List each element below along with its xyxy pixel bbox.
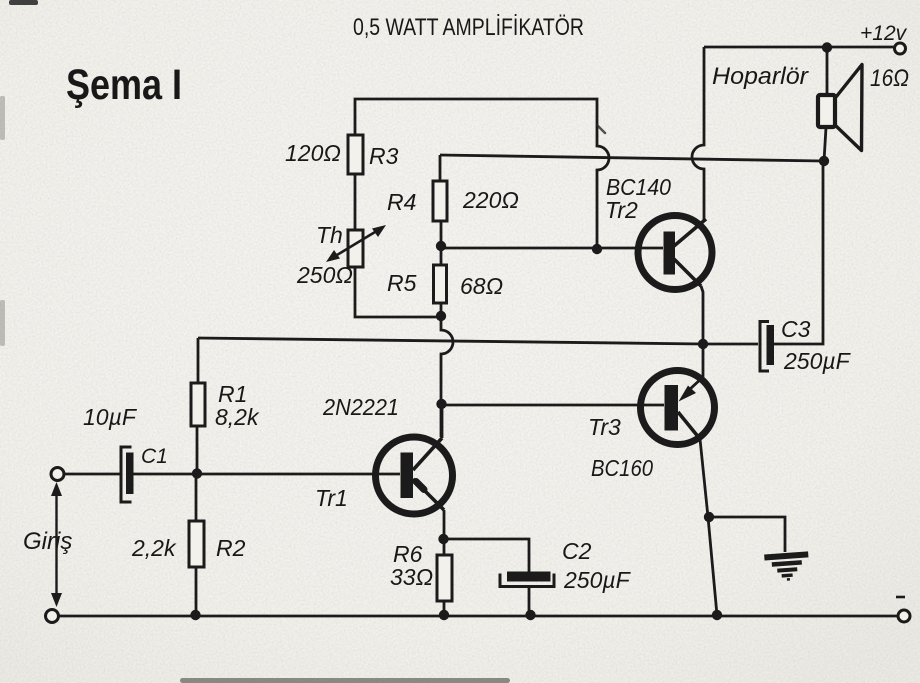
wire Tr3 base bbox=[441, 404, 664, 407]
wire R2 bottom bbox=[195, 567, 198, 615]
speaker drop wire bbox=[824, 47, 827, 161]
svg-text:250µF: 250µF bbox=[783, 348, 852, 374]
svg-text:C2: C2 bbox=[562, 538, 592, 564]
scan streak bottom bbox=[0, 96, 510, 683]
junction dot speaker top bbox=[822, 42, 832, 52]
svg-text:Hoparlör: Hoparlör bbox=[712, 63, 809, 90]
value 120Ω bbox=[285, 140, 341, 166]
wire R4 to R5 through base node bbox=[440, 221, 443, 265]
wire Tr1 collector link bbox=[441, 404, 444, 438]
ref Tr2 bbox=[605, 197, 638, 223]
terminal output minus bbox=[898, 610, 910, 622]
wire Tr1 emitter down bbox=[443, 510, 446, 555]
svg-text:R3: R3 bbox=[369, 143, 399, 169]
junction dot Tr2 base / R3 tap bbox=[592, 244, 602, 254]
resistor R1 bbox=[191, 383, 205, 426]
svg-text:Tr1: Tr1 bbox=[315, 485, 348, 511]
junction dot Tr3 base tap bbox=[436, 399, 446, 409]
junction dot R4-R5 bbox=[436, 241, 446, 251]
wire R6 bottom bbox=[443, 601, 446, 615]
ref R5 bbox=[387, 270, 417, 296]
ref C1 bbox=[141, 445, 168, 468]
value 33Ω bbox=[390, 564, 433, 590]
wire column down with hop over R1-C3 line bbox=[441, 316, 453, 437]
ref R6 bbox=[393, 541, 423, 567]
net label +12v bbox=[860, 22, 908, 45]
svg-text:120Ω: 120Ω bbox=[285, 140, 341, 166]
label Hoparlör bbox=[712, 63, 809, 90]
input terminal bottom bbox=[46, 610, 59, 623]
label Giriş bbox=[23, 528, 72, 555]
svg-text:Şema I: Şema I bbox=[66, 61, 182, 109]
junction dot speaker bottom bbox=[819, 156, 829, 166]
svg-text:0,5 WATT AMPLİFİKATÖR: 0,5 WATT AMPLİFİKATÖR bbox=[353, 14, 584, 41]
ref R3 bbox=[369, 143, 399, 169]
capacitor C1 bbox=[121, 447, 134, 502]
svg-text:R5: R5 bbox=[387, 270, 417, 296]
value 68Ω bbox=[460, 273, 503, 299]
svg-text:R4: R4 bbox=[387, 189, 416, 215]
svg-text:16Ω: 16Ω bbox=[870, 65, 909, 92]
svg-text:BC160: BC160 bbox=[591, 455, 653, 481]
wire R3 top to Tr2 base node (with hop at crossing) bbox=[355, 99, 609, 249]
transistor Tr3 bbox=[641, 371, 715, 445]
Tr3 emitter arrow bbox=[679, 386, 697, 402]
ref R4 bbox=[387, 189, 416, 215]
transistor Tr1 bbox=[376, 437, 453, 514]
thermistor Th bbox=[348, 230, 363, 267]
wire input to C1 bbox=[64, 473, 120, 476]
svg-text:250µF: 250µF bbox=[563, 567, 632, 593]
value 250µF bbox=[563, 567, 632, 593]
wire R2 top bbox=[195, 474, 198, 521]
ref Th bbox=[316, 222, 343, 248]
wire R1 top to C3 node bbox=[198, 338, 758, 344]
ref Tr3 bbox=[588, 414, 621, 440]
svg-text:+12v: +12v bbox=[860, 22, 908, 45]
Th adjustment arrow bbox=[326, 225, 386, 262]
svg-text:Th: Th bbox=[316, 222, 343, 248]
junction dot rail C2 bbox=[525, 610, 535, 620]
wire R4 top corner bbox=[439, 155, 442, 181]
svg-text:2N2221: 2N2221 bbox=[322, 394, 399, 420]
svg-text:8,2k: 8,2k bbox=[215, 404, 260, 430]
svg-text:R2: R2 bbox=[216, 535, 246, 561]
input terminal top bbox=[51, 468, 64, 481]
wire C1 to Tr1 base bbox=[134, 473, 401, 476]
schematic label Şema I bbox=[66, 61, 182, 109]
junction dot rail R6 bbox=[439, 610, 449, 620]
ref BC160 bbox=[591, 455, 653, 481]
ground bbox=[764, 554, 810, 581]
wire Tr2 collector riser with hop over speaker-return line bbox=[692, 47, 704, 221]
transistor Tr2 bbox=[638, 216, 712, 290]
speaker Hoparlör bbox=[818, 65, 862, 151]
svg-text:33Ω: 33Ω bbox=[390, 564, 433, 590]
svg-text:2,2k: 2,2k bbox=[131, 535, 177, 561]
wire R1 riser bbox=[197, 338, 200, 383]
wire Th bottom to R5 bottom node bbox=[355, 267, 441, 317]
value 250µF bbox=[783, 348, 852, 374]
title bbox=[353, 14, 584, 41]
value 10µF bbox=[83, 404, 138, 430]
wire R3 to Th bbox=[354, 174, 357, 230]
wire Tr2 base bbox=[441, 247, 663, 250]
wire Tr2 emitter to C3 node bbox=[701, 286, 703, 344]
ref R1 bbox=[218, 381, 247, 407]
ref 2N2221 bbox=[322, 394, 399, 420]
value 16Ω bbox=[870, 65, 909, 92]
value 8,2k bbox=[215, 404, 260, 430]
wire R5 bottom node bbox=[440, 303, 443, 316]
wire R1 bottom bbox=[196, 426, 199, 474]
junction dot C3 / emitters bbox=[698, 339, 708, 349]
wire C3 to speaker bottom node bbox=[774, 161, 823, 344]
svg-text:Tr3: Tr3 bbox=[588, 414, 621, 440]
resistor R3 bbox=[348, 135, 363, 174]
resistor R4 bbox=[433, 181, 447, 221]
value 2,2k bbox=[131, 535, 177, 561]
svg-text:10µF: 10µF bbox=[83, 404, 138, 430]
terminal +12v bbox=[895, 43, 906, 54]
scan smudge top-left bbox=[9, 0, 38, 5]
capacitor C3 bbox=[760, 322, 774, 372]
ref R2 bbox=[216, 535, 246, 561]
wire Tr3 emitter riser bbox=[689, 344, 703, 390]
ref Tr1 bbox=[315, 485, 348, 511]
junction dot Tr1 emitter bbox=[438, 534, 448, 544]
junction dot R5 bottom / Th bbox=[436, 311, 446, 321]
svg-text:220Ω: 220Ω bbox=[462, 187, 519, 213]
wire Tr3 collector to bottom rail bbox=[700, 439, 717, 615]
wire C2 branch bbox=[444, 539, 529, 615]
svg-text:Giriş: Giriş bbox=[23, 528, 72, 555]
svg-text:Tr2: Tr2 bbox=[605, 197, 638, 223]
ref BC140 bbox=[606, 174, 671, 200]
wire speaker return line (R4 top to speaker bottom) bbox=[440, 155, 823, 161]
resistor R6 bbox=[437, 555, 452, 601]
value 250Ω bbox=[296, 262, 353, 288]
ref C3 bbox=[781, 316, 811, 342]
junction dot base node R1-R2 bbox=[192, 468, 202, 478]
wire +12v rail bbox=[704, 46, 894, 49]
scan tick artifact bbox=[597, 125, 605, 133]
resistor R5 bbox=[434, 265, 447, 303]
label minus bbox=[896, 596, 905, 599]
svg-text:C1: C1 bbox=[141, 445, 168, 468]
capacitor C2 bbox=[500, 572, 554, 587]
resistor R2 bbox=[189, 521, 204, 567]
svg-text:C3: C3 bbox=[781, 316, 811, 342]
input range arrow bbox=[51, 482, 62, 607]
junction dot rail Tr3 bbox=[712, 610, 722, 620]
svg-text:68Ω: 68Ω bbox=[460, 273, 503, 299]
svg-text:250Ω: 250Ω bbox=[296, 262, 353, 288]
wire ground branch bbox=[709, 517, 785, 552]
wire bottom rail bbox=[59, 615, 898, 618]
value 220Ω bbox=[462, 187, 519, 213]
ref C2 bbox=[562, 538, 592, 564]
junction dot ground branch bbox=[704, 512, 714, 522]
junction dot rail R2 bbox=[190, 610, 200, 620]
